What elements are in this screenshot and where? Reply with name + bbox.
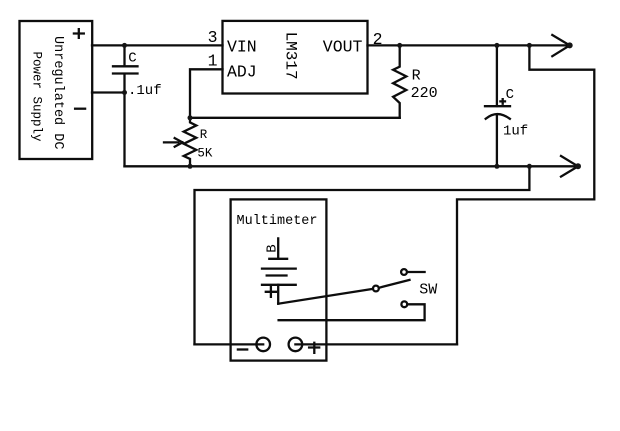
svg-text:VOUT: VOUT <box>323 38 363 57</box>
svg-text:5K: 5K <box>197 146 213 160</box>
svg-text:3: 3 <box>208 28 218 47</box>
svg-text:VIN: VIN <box>227 37 257 56</box>
svg-text:SW: SW <box>419 281 437 298</box>
svg-text:2: 2 <box>373 30 383 49</box>
svg-text:R: R <box>200 128 208 142</box>
svg-text:Power Supply: Power Supply <box>30 51 44 142</box>
svg-text:C: C <box>128 50 136 66</box>
svg-text:220: 220 <box>411 85 438 102</box>
svg-text:B: B <box>265 244 281 252</box>
svg-text:Multimeter: Multimeter <box>237 214 318 229</box>
svg-text:.1uf: .1uf <box>128 83 162 99</box>
svg-text:C: C <box>506 87 514 103</box>
svg-text:1: 1 <box>208 52 218 71</box>
svg-text:LM317: LM317 <box>281 32 299 80</box>
svg-text:Unregulated DC: Unregulated DC <box>50 36 65 149</box>
svg-text:ADJ: ADJ <box>227 62 257 81</box>
svg-text:R: R <box>412 67 421 84</box>
svg-text:1uf: 1uf <box>503 124 528 140</box>
